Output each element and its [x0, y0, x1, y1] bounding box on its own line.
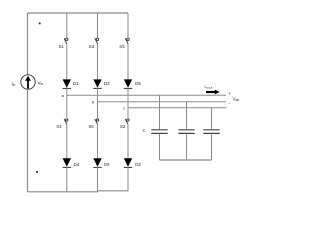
diode D5 [124, 79, 132, 88]
wire: top bus corner to S5 [127, 13, 129, 38]
svg-text:-: - [229, 102, 231, 107]
svg-text:S5: S5 [119, 44, 125, 49]
switch S6 [95, 119, 99, 125]
wire: top DC bus [28, 12, 129, 14]
diode D6 [93, 158, 101, 167]
switch S1 [64, 38, 68, 44]
wire: cap branch 2 lower [186, 134, 188, 160]
wire: S5 to D5 [127, 44, 129, 80]
wire: cap branch 1 upper (from phase a) [159, 95, 161, 129]
stray mark top-left [39, 23, 41, 25]
wire: cap branch 2 upper (from phase b) [186, 102, 188, 130]
wire: D4 to bottom bus [66, 167, 68, 191]
wire: S1 to D1 [66, 44, 68, 80]
svg-text:S3: S3 [89, 44, 95, 49]
svg-text:S1: S1 [59, 44, 65, 49]
current source Iin (circle with up arrow) [21, 75, 35, 89]
switch S2 [125, 119, 129, 125]
wire: phase a line [67, 94, 226, 96]
wire: cap branch 3 lower [211, 134, 213, 160]
wire: cap branch 3 upper (from phase c) [211, 108, 213, 130]
svg-text:Vab: Vab [233, 96, 240, 102]
svg-text:+: + [228, 91, 231, 96]
svg-text:a: a [62, 93, 65, 98]
wire: D6 to bottom bus [97, 167, 99, 191]
wire: phase c line [128, 107, 227, 109]
wire: left rail lower segment [27, 89, 29, 192]
wire: D3 through node b to S6 [97, 88, 99, 117]
wire: S3 to D3 [97, 44, 99, 80]
svg-text:S2: S2 [120, 124, 126, 129]
wire: S6 to D6 [97, 125, 99, 159]
wire: D2 to bottom bus [127, 167, 129, 190]
stray mark bottom-left [36, 171, 38, 173]
wire: top bus to S3 [97, 13, 99, 38]
diode D2 [124, 158, 132, 167]
svg-text:S4: S4 [56, 124, 62, 129]
wire: phase b line [98, 101, 227, 103]
svg-text:c: c [123, 105, 125, 110]
svg-text:Vin: Vin [38, 80, 44, 86]
svg-text:b: b [92, 99, 95, 104]
wire: D1 through node a to S4 [66, 88, 68, 117]
wire: S4 to D4 [66, 125, 68, 159]
svg-text:D3: D3 [104, 81, 110, 86]
svg-text:Iin: Iin [12, 81, 16, 87]
svg-text:D2: D2 [135, 162, 141, 167]
capacitor C (branch 1) [151, 130, 167, 134]
wire: left rail upper segment [27, 13, 29, 75]
svg-text:D5: D5 [135, 81, 141, 86]
diode D1 [63, 79, 71, 88]
wire: bottom DC bus right segment [98, 190, 129, 192]
current arrow Iout,a [206, 90, 220, 95]
svg-text:D4: D4 [74, 162, 80, 167]
svg-text:Iout,a: Iout,a [205, 85, 213, 90]
switch S5 [125, 38, 129, 44]
wire: bottom DC bus [28, 191, 99, 193]
svg-text:D1: D1 [73, 81, 79, 86]
wire: top bus to S1 [66, 13, 68, 38]
switch S4 [64, 119, 68, 125]
svg-text:D6: D6 [104, 162, 110, 167]
diode D4 [63, 158, 71, 167]
svg-text:S6: S6 [89, 124, 95, 129]
wire: D5 through node c to S2 [127, 88, 129, 117]
wire: cap branch 1 lower [159, 134, 161, 160]
wire: capacitor bottom bus [160, 159, 212, 161]
switch S3 [95, 38, 99, 44]
svg-text:C: C [143, 128, 146, 133]
diode D3 [93, 79, 101, 88]
capacitor (branch 2) [178, 130, 194, 134]
capacitor (branch 3) [203, 130, 219, 134]
wire: S2 to D2 [127, 125, 129, 159]
